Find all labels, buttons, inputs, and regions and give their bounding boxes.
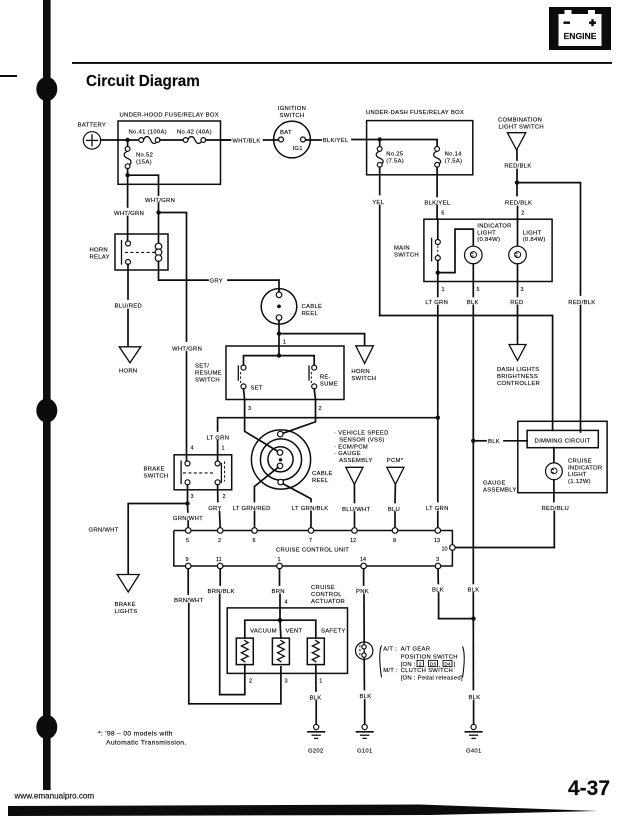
wire YEL fuse25 down	[372, 167, 384, 315]
wire LT GRN from pin 1	[425, 282, 448, 418]
VSS connector triangle	[346, 467, 363, 484]
wire BLU to pin 8	[388, 484, 400, 527]
svg-text:No.42 (40A): No.42 (40A)	[177, 130, 212, 136]
svg-text:ACTUATOR: ACTUATOR	[311, 599, 345, 605]
svg-text:11: 11	[216, 557, 222, 563]
fuse No.42 (40A)	[177, 130, 212, 144]
svg-text:G101: G101	[357, 749, 373, 755]
CCU bottom pins	[185, 557, 440, 569]
wire WHT/GRN long vertical lower part to brake switch pin 4	[172, 347, 202, 462]
wire battery to under-hood box	[101, 139, 128, 141]
svg-text:WHT/GRN: WHT/GRN	[114, 211, 144, 217]
svg-text:CABLE: CABLE	[312, 471, 333, 477]
pin 1 main switch	[438, 273, 445, 293]
svg-text:UNDER-HOOD FUSE/RELAY BOX: UNDER-HOOD FUSE/RELAY BOX	[120, 113, 219, 119]
set/resume switch box	[195, 346, 344, 400]
node BLK ground junction	[471, 616, 475, 620]
svg-text:BATTERY: BATTERY	[78, 122, 107, 128]
svg-text:SAFETY: SAFETY	[321, 629, 346, 635]
svg-text:(15A): (15A)	[136, 159, 152, 165]
svg-text:CRUISE: CRUISE	[311, 585, 335, 591]
wire BLK safety to ground G202	[310, 665, 322, 725]
svg-text:GRY: GRY	[208, 506, 222, 512]
fuse No.25 (7.5A)	[376, 140, 404, 168]
wire RED/BLK to right-side vertical	[517, 183, 581, 295]
svg-text:POSITION SWITCH: POSITION SWITCH	[401, 654, 458, 660]
svg-text:SWITCH: SWITCH	[195, 377, 220, 383]
svg-text:6: 6	[253, 538, 256, 544]
brake lights connector triangle	[115, 575, 140, 615]
svg-text:LT GRN: LT GRN	[425, 300, 448, 306]
svg-text:SET/: SET/	[195, 363, 209, 369]
indicator light bulb	[465, 224, 512, 264]
dash lights brightness controller triangle	[497, 345, 540, 388]
wire lower reel to LT GRN/RED pin 6	[233, 468, 278, 528]
safety solenoid	[307, 629, 345, 685]
svg-text:4-37: 4-37	[568, 777, 610, 800]
svg-text:1: 1	[283, 340, 286, 346]
wire dimming to cruise indicator bulb	[553, 448, 555, 464]
node main switch output	[436, 270, 440, 274]
svg-text:SWITCH: SWITCH	[280, 113, 305, 119]
main switch box	[394, 219, 552, 281]
svg-text:LIGHT: LIGHT	[477, 230, 496, 236]
wire WHT/GRN left leg down to horn relay	[114, 175, 144, 241]
node set/resume feed	[277, 353, 281, 357]
svg-text:SWITCH: SWITCH	[394, 253, 419, 259]
fuse No.14 (7.5A)	[434, 147, 463, 168]
svg-text:BRN/WHT: BRN/WHT	[174, 598, 204, 604]
light bulb (0.84W)	[509, 219, 546, 264]
svg-text:BLU/RED: BLU/RED	[115, 304, 143, 310]
cruise control unit box	[174, 531, 453, 567]
wire to both switch halves	[244, 356, 315, 365]
pin 3 set	[244, 389, 252, 412]
svg-text:INDICATOR: INDICATOR	[568, 465, 602, 471]
svg-text:5: 5	[477, 287, 480, 293]
svg-text:IG1: IG1	[293, 146, 303, 152]
under-dash fuse/relay box	[366, 110, 473, 175]
wire RED/BLK right vertical lower part	[568, 300, 595, 431]
svg-text:2: 2	[249, 679, 252, 685]
svg-text:D4: D4	[444, 662, 450, 668]
svg-text:No.52: No.52	[136, 152, 153, 158]
wire GRN/WHT branch to brake lights	[89, 504, 188, 575]
svg-text:BLK: BLK	[469, 695, 481, 701]
pin 3 main switch	[518, 264, 524, 293]
svg-text:CONTROLLER: CONTROLLER	[497, 381, 540, 387]
A/T gear position switch / clutch switch	[356, 642, 373, 659]
svg-text:(1.12W): (1.12W)	[568, 479, 591, 485]
svg-text:BLU/WHT: BLU/WHT	[342, 507, 371, 513]
brake switch contacts	[181, 461, 225, 485]
svg-text:CABLE: CABLE	[302, 304, 323, 310]
fuse No.52 (15A)	[124, 140, 153, 169]
node horn switch branch	[277, 331, 281, 335]
svg-text:*: '98 – 00 models with: *: '98 – 00 models with	[98, 730, 173, 737]
node fuse52 bottom	[125, 173, 129, 177]
wire coil bottom to GRY run	[159, 261, 209, 280]
cruise control actuator label	[311, 585, 345, 605]
svg-text:3: 3	[436, 557, 439, 563]
svg-text:CONTROL: CONTROL	[311, 592, 342, 598]
brake switch box	[144, 455, 232, 490]
svg-text:(7.5A): (7.5A)	[386, 159, 404, 165]
svg-text:REEL: REEL	[312, 478, 329, 484]
svg-text:ENGINE: ENGINE	[564, 31, 597, 41]
svg-text:8: 8	[393, 538, 396, 544]
main switch contacts	[432, 219, 441, 272]
svg-text:RED/BLK: RED/BLK	[568, 300, 595, 306]
svg-text:2: 2	[218, 538, 221, 544]
wire LT GRN continues to CCU pin 13	[426, 418, 449, 528]
CCU pin 10	[442, 545, 456, 553]
wire BLK from pin 5	[467, 282, 479, 441]
wire GRY label and run to cable reel	[210, 279, 280, 285]
wire BLU/RED from relay contact to horn	[115, 264, 143, 346]
fuse No.41 (100A)	[129, 130, 167, 144]
svg-text:IGNITION: IGNITION	[278, 106, 306, 112]
svg-text:GRN/WHT: GRN/WHT	[89, 527, 119, 533]
svg-text:HORN: HORN	[351, 369, 369, 375]
wire RED/BLK comb switch down	[504, 150, 531, 183]
svg-text:LIGHTS: LIGHTS	[115, 609, 138, 615]
horn relay coil	[155, 243, 162, 261]
svg-text:BLK: BLK	[310, 695, 322, 701]
node BLK branch to dimming	[471, 439, 475, 443]
dimming circuit box	[527, 430, 598, 447]
svg-text:WHT/BLK: WHT/BLK	[232, 138, 260, 144]
svg-text:BRIGHTNESS: BRIGHTNESS	[497, 374, 538, 380]
wire BLK to dimming circuit	[473, 439, 527, 445]
svg-text:BLK: BLK	[468, 587, 480, 593]
svg-text:LIGHT: LIGHT	[568, 472, 587, 478]
svg-text:LIGHT SWITCH: LIGHT SWITCH	[499, 124, 544, 130]
footnote	[98, 730, 186, 746]
svg-text:G401: G401	[466, 749, 482, 755]
YEL rail to gauge feed	[380, 316, 553, 431]
battery	[78, 122, 107, 149]
svg-text:PNK: PNK	[356, 589, 369, 595]
combination light switch	[498, 118, 544, 150]
pin 1 set/resume switch	[279, 334, 286, 356]
vacuum solenoid	[236, 629, 277, 685]
svg-text:REEL: REEL	[302, 311, 319, 317]
A/T gear note block	[380, 646, 465, 682]
svg-text:BLK/YEL: BLK/YEL	[424, 201, 450, 207]
svg-text:INDICATOR: INDICATOR	[477, 224, 511, 230]
svg-text:Circuit Diagram: Circuit Diagram	[86, 73, 200, 90]
svg-text:BRAKE: BRAKE	[144, 466, 165, 472]
svg-text:· GAUGE: · GAUGE	[334, 451, 361, 457]
svg-text:5: 5	[186, 538, 189, 544]
node LT GRN branch	[436, 416, 440, 420]
wire fuse42 to box edge	[206, 139, 230, 141]
page edge tick	[0, 75, 17, 77]
wire RED from pin 3	[510, 282, 523, 345]
node under-dash feed	[378, 137, 382, 141]
svg-text:MAIN: MAIN	[394, 246, 410, 252]
svg-text:1: 1	[442, 287, 445, 293]
set switch contacts	[238, 365, 263, 392]
svg-text:3: 3	[521, 287, 524, 293]
pin 3 brake switch	[188, 485, 194, 504]
svg-text:9: 9	[186, 557, 189, 563]
svg-text:WHT/GRN: WHT/GRN	[145, 198, 175, 204]
svg-text:· VEHICLE SPEED: · VEHICLE SPEED	[334, 431, 389, 437]
ground G401	[465, 724, 481, 754]
wire BLK switch to ground G101	[360, 659, 372, 724]
svg-text:A/T :: A/T :	[383, 647, 397, 653]
svg-text:1: 1	[278, 557, 281, 563]
wire L to indicator light	[438, 229, 474, 273]
svg-text:VACUUM: VACUUM	[250, 629, 277, 635]
cable reel (lower)	[251, 430, 332, 489]
wire RED/BLU bulb to CCU pin 10	[455, 480, 569, 548]
svg-text:BLK: BLK	[467, 300, 479, 306]
svg-text:GRY: GRY	[210, 279, 224, 285]
svg-text:ASSEMBLY: ASSEMBLY	[339, 458, 373, 464]
svg-text:4: 4	[285, 600, 288, 606]
svg-text:BLU: BLU	[388, 507, 400, 513]
wire WHT/GRN branch inside box	[128, 175, 159, 195]
wire BLK to ground G401	[473, 701, 475, 725]
ENGINE badge	[549, 7, 611, 50]
svg-text:2: 2	[521, 210, 524, 216]
svg-text:3: 3	[285, 679, 288, 685]
wire WHT/BLK box to ignition	[221, 138, 279, 144]
svg-text:Automatic Transmission.: Automatic Transmission.	[106, 739, 186, 746]
svg-text:13: 13	[434, 538, 440, 544]
svg-text:LT GRN/RED: LT GRN/RED	[233, 506, 271, 512]
svg-text:RED/BLK: RED/BLK	[504, 164, 531, 170]
resume switch contacts	[309, 365, 338, 389]
svg-text:[ON : Pedal released]: [ON : Pedal released]	[401, 675, 463, 681]
wire WHT/GRN label A segment	[145, 198, 175, 213]
vent solenoid	[272, 629, 302, 685]
wire BLK continues down	[472, 441, 474, 584]
svg-text:BLK: BLK	[488, 439, 500, 445]
svg-text:(7.5A): (7.5A)	[445, 159, 463, 165]
wire branch to horn switch	[279, 334, 365, 346]
svg-text:BAT: BAT	[280, 130, 292, 136]
svg-text:GAUGE: GAUGE	[483, 481, 506, 487]
svg-text:4: 4	[191, 446, 194, 452]
wire GRY down into cable reel	[278, 280, 280, 292]
wire cable reel to node 1	[278, 320, 280, 333]
bottom bar	[8, 805, 598, 817]
svg-text:6: 6	[441, 211, 444, 217]
ground G202	[308, 724, 324, 754]
svg-text:CRUISE: CRUISE	[568, 459, 592, 465]
wire actuator distribution	[245, 620, 316, 638]
wire BRN/WHT pin 9 to vent solenoid	[174, 569, 281, 704]
svg-text:GRN/WHT: GRN/WHT	[173, 516, 203, 522]
wire BLK/YEL fuse14 down to main switch pin 6	[424, 167, 450, 219]
svg-text:1: 1	[319, 679, 322, 685]
cruise control actuator box	[227, 608, 347, 674]
node actuator feed	[278, 618, 282, 622]
svg-text:ASSEMBLY: ASSEMBLY	[483, 488, 517, 494]
svg-text:BLK: BLK	[360, 694, 372, 700]
svg-text:(0.84W): (0.84W)	[523, 237, 546, 243]
under-hood fuse/relay box	[118, 121, 221, 184]
svg-text:SWITCH: SWITCH	[351, 376, 376, 382]
pin 2 resume	[314, 389, 321, 412]
svg-text:PCM*: PCM*	[387, 458, 404, 464]
svg-text:12: 12	[350, 538, 356, 544]
wire RED/BLK down to main switch pin 2	[505, 183, 532, 220]
wire BRN/BLK pin 11 to vacuum solenoid	[208, 569, 245, 695]
svg-text:]: ]	[454, 662, 456, 668]
wire between fuses	[160, 139, 183, 141]
svg-text:BRN/BLK: BRN/BLK	[208, 589, 235, 595]
svg-text:BLK: BLK	[432, 587, 444, 593]
svg-text:UNDER-DASH FUSE/RELAY BOX: UNDER-DASH FUSE/RELAY BOX	[366, 110, 464, 116]
svg-text:RELAY: RELAY	[90, 255, 110, 261]
svg-text:RED/BLK: RED/BLK	[505, 201, 532, 207]
svg-text:M/T :: M/T :	[383, 668, 398, 674]
wire LT GRN down to brake pin 1	[207, 436, 230, 461]
svg-text:10: 10	[442, 546, 448, 552]
wire to fuse 41	[128, 139, 139, 141]
svg-text:HORN: HORN	[119, 369, 137, 375]
svg-text:LT GRN: LT GRN	[207, 436, 230, 442]
horn switch connector triangle	[351, 346, 376, 382]
gauge assembly box	[483, 421, 607, 493]
wire BLK main vertical labels	[468, 587, 481, 700]
ground G101	[357, 724, 373, 754]
wire set pin3 diagonal to lower reel	[245, 400, 278, 452]
wire LT GRN horizontal to brake switch pin 1	[218, 418, 438, 431]
wire resume pin2 diagonal to lower reel top contact	[283, 400, 316, 434]
svg-text:[ON :: [ON :	[401, 662, 416, 668]
pin 5 main switch	[473, 264, 479, 293]
cable reel (upper)	[261, 289, 322, 325]
wire coil feed	[158, 213, 160, 244]
svg-text:COMBINATION: COMBINATION	[498, 118, 542, 124]
wire BRN pin 1 to actuator pin 4	[272, 569, 288, 620]
svg-text:LT GRN/BLK: LT GRN/BLK	[292, 506, 329, 512]
svg-text:1: 1	[222, 446, 225, 452]
pin 2 brake switch GRY	[208, 485, 225, 528]
svg-text:SET: SET	[251, 386, 263, 392]
svg-text:CRUISE CONTROL UNIT: CRUISE CONTROL UNIT	[276, 548, 349, 554]
wire BLK pin 3 down	[432, 569, 474, 619]
svg-text:3: 3	[191, 494, 194, 500]
node battery feed	[125, 138, 129, 142]
svg-text:2: 2	[419, 662, 422, 668]
svg-text:LT GRN: LT GRN	[426, 506, 449, 512]
node GRN/WHT junction	[185, 501, 189, 505]
svg-text:No.25: No.25	[386, 152, 404, 158]
svg-text:G202: G202	[308, 749, 324, 755]
svg-text:CLUTCH SWITCH: CLUTCH SWITCH	[401, 668, 453, 674]
wire GRN/WHT to CCU pin 5	[173, 504, 203, 528]
svg-text:DIMMING CIRCUIT: DIMMING CIRCUIT	[535, 438, 591, 444]
node RED/BLK junction	[515, 180, 519, 184]
svg-text:D3: D3	[430, 662, 436, 668]
svg-text:RED/BLU: RED/BLU	[542, 506, 570, 512]
svg-text:WHT/GRN: WHT/GRN	[172, 347, 202, 353]
svg-text:SUME: SUME	[320, 381, 338, 387]
svg-text:2: 2	[223, 494, 226, 500]
VSS / ECM/PCM / gauge assembly list	[334, 431, 389, 464]
svg-text:VENT: VENT	[286, 629, 303, 635]
PCM connector triangle	[387, 467, 404, 484]
horn connector triangle	[119, 347, 141, 375]
svg-text:3: 3	[248, 406, 251, 412]
svg-text:No.41 (100A): No.41 (100A)	[129, 130, 167, 136]
wire BLK/YEL ignition to under-dash box	[306, 138, 380, 144]
wire lower reel to LT GRN/BLK pin 7	[283, 484, 329, 528]
svg-text:RE-: RE-	[320, 374, 331, 380]
horn relay	[90, 234, 169, 270]
wire PNK pin 14 to A/T gear position switch	[356, 569, 369, 642]
wire to fuse No.14 top	[380, 140, 437, 147]
title rule	[72, 62, 612, 64]
ignition switch	[274, 106, 311, 158]
svg-text:RESUME: RESUME	[195, 370, 222, 376]
svg-text:(0.84W): (0.84W)	[477, 237, 500, 243]
svg-text:HORN: HORN	[90, 248, 108, 254]
svg-text:7: 7	[309, 538, 312, 544]
svg-text:BRN: BRN	[272, 589, 285, 595]
svg-text:SENSOR (VSS): SENSOR (VSS)	[339, 438, 385, 444]
svg-text:BLK/YEL: BLK/YEL	[323, 138, 349, 144]
RED/BLK into dimming circuit	[580, 430, 582, 432]
wire junction to long WHT/GRN vertical	[159, 213, 187, 342]
svg-text:RED: RED	[510, 300, 523, 306]
svg-text:No.14: No.14	[445, 152, 463, 158]
svg-text:www.emanualpro.com: www.emanualpro.com	[14, 792, 95, 801]
svg-text:BRAKE: BRAKE	[115, 602, 136, 608]
svg-text:SWITCH: SWITCH	[144, 473, 169, 479]
svg-text:· ECM/PCM: · ECM/PCM	[334, 444, 368, 450]
svg-text:YEL: YEL	[372, 200, 384, 206]
svg-text:14: 14	[360, 557, 366, 563]
CCU top pins	[185, 528, 440, 544]
binding bar	[36, 0, 57, 790]
svg-text:DASH LIGHTS: DASH LIGHTS	[497, 367, 539, 373]
svg-text:LIGHT: LIGHT	[523, 230, 542, 236]
wire BLU/WHT to pin 12	[342, 484, 371, 527]
node WHT/GRN junction	[156, 210, 160, 214]
svg-text:A/T GEAR: A/T GEAR	[401, 647, 431, 653]
cruise indicator light bulb	[546, 459, 603, 485]
svg-text:2: 2	[319, 406, 322, 412]
